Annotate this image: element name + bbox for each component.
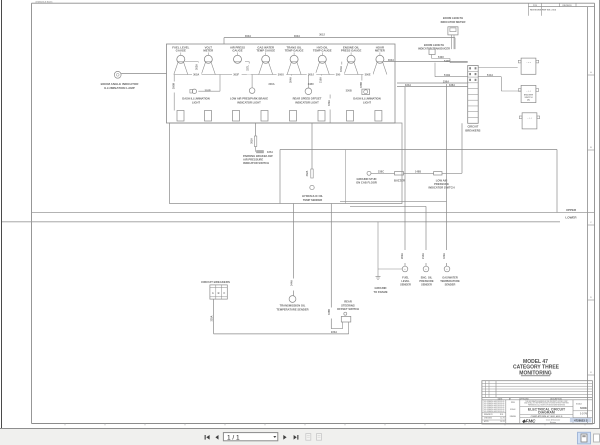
svg-text:CIRCUIT: CIRCUIT: [467, 125, 478, 129]
svg-text:REVISIONS PER WN. 2105: REVISIONS PER WN. 2105: [530, 10, 557, 12]
svg-text:ILLUMINATION LAMP: ILLUMINATION LAMP: [104, 86, 135, 90]
svg-text:LIGHT: LIGHT: [192, 100, 200, 104]
svg-text:ON CAB FLOOR: ON CAB FLOOR: [356, 181, 377, 185]
svg-text:R.M.: R.M.: [500, 414, 504, 416]
svg-text:223A: 223A: [331, 330, 337, 334]
svg-text:DASH ILLUMINATION: DASH ILLUMINATION: [182, 97, 209, 101]
svg-text:- + +: - + +: [526, 62, 531, 64]
svg-text:540C: 540C: [438, 55, 444, 59]
svg-text:302F: 302F: [233, 73, 239, 77]
svg-text:CIRCUIT BREAKERS: CIRCUIT BREAKERS: [201, 280, 230, 284]
svg-text:338A: 338A: [449, 83, 455, 87]
svg-text:INDICATOR METER: INDICATOR METER: [441, 20, 466, 24]
svg-text:INDICATOR LIGHT: INDICATOR LIGHT: [237, 100, 261, 104]
svg-text:GROUND: GROUND: [375, 286, 387, 290]
svg-text:BUZZER: BUZZER: [394, 179, 405, 183]
svg-text:540D: 540D: [444, 59, 450, 63]
svg-text:REAR SPEED OFFSET: REAR SPEED OFFSET: [293, 97, 322, 101]
svg-text:335B: 335B: [360, 82, 363, 88]
svg-text:301A: 301A: [251, 138, 254, 144]
svg-text:338B: 338B: [328, 309, 331, 315]
svg-text:INDICATOR SWITCH: INDICATOR SWITCH: [428, 186, 454, 190]
svg-text:SENDER: SENDER: [421, 283, 432, 287]
svg-text:209A: 209A: [401, 253, 404, 259]
svg-text:- + +: - + +: [527, 118, 532, 120]
svg-text:PARKING BRAKE/LOW: PARKING BRAKE/LOW: [243, 154, 273, 158]
svg-text:304A: 304A: [290, 77, 293, 83]
svg-text:STEERING: STEERING: [341, 303, 355, 307]
svg-text:SENDER: SENDER: [445, 283, 456, 287]
svg-text:SCALE: SCALE: [510, 408, 515, 411]
svg-text:316A: 316A: [319, 77, 322, 83]
svg-text:TRANSMISSION OIL: TRANSMISSION OIL: [280, 304, 306, 308]
svg-text:+: +: [425, 268, 427, 271]
svg-text:300X: 300X: [278, 73, 284, 77]
svg-text:B: B: [590, 147, 592, 149]
svg-text:INDICATOR SWITCH: INDICATOR SWITCH: [243, 161, 269, 165]
svg-text:PRESS GAUGE: PRESS GAUGE: [341, 49, 362, 53]
svg-text:REAR: REAR: [344, 300, 352, 304]
svg-text:169A: 169A: [443, 253, 446, 259]
svg-text:541A: 541A: [487, 73, 493, 77]
svg-text:LOW AIR: LOW AIR: [436, 179, 448, 183]
svg-text:ENG. OIL: ENG. OIL: [421, 275, 433, 279]
svg-text:1 / 1: 1 / 1: [227, 434, 240, 441]
svg-text:+: +: [446, 268, 448, 271]
svg-text:SENDER: SENDER: [400, 283, 411, 287]
svg-text:302J: 302J: [319, 32, 325, 36]
svg-text:339A: 339A: [328, 100, 331, 106]
svg-text:210A: 210A: [422, 253, 425, 259]
svg-text:338C: 338C: [308, 82, 314, 86]
svg-text:PCN: PCN: [533, 5, 538, 7]
svg-text:GAUGE: GAUGE: [232, 49, 242, 53]
svg-text:4728023-S ELEC: 4728023-S ELEC: [35, 0, 53, 3]
svg-text:HYDRAULIC OIL: HYDRAULIC OIL: [302, 194, 323, 198]
svg-text:302A: 302A: [245, 34, 251, 38]
svg-text:Crane & Excavator: Crane & Excavator: [546, 419, 561, 422]
svg-text:GAUGE: GAUGE: [176, 49, 186, 53]
svg-text:AIR PRESSURE: AIR PRESSURE: [243, 158, 263, 162]
svg-text:OFFSET SWITCH: OFFSET SWITCH: [337, 307, 359, 311]
svg-text:GAS/WATER: GAS/WATER: [442, 275, 458, 279]
svg-text:METER: METER: [203, 49, 213, 53]
svg-text:FUEL: FUEL: [402, 275, 409, 279]
svg-text:TEMP GAUGE: TEMP GAUGE: [313, 49, 332, 53]
svg-text:LOW AIR PRES/PARK BRAKE: LOW AIR PRES/PARK BRAKE: [230, 97, 268, 101]
svg-text:332A: 332A: [306, 170, 309, 176]
svg-text:TEMP GAUGE: TEMP GAUGE: [256, 49, 275, 53]
svg-text:300J: 300J: [308, 73, 314, 77]
svg-text:LIGHT: LIGHT: [363, 100, 371, 104]
svg-text:ITEM: ITEM: [511, 402, 515, 404]
svg-text:BOOM LENGTH: BOOM LENGTH: [443, 16, 463, 20]
svg-text:- + +: - + +: [526, 90, 531, 92]
svg-text:Division: Division: [550, 422, 556, 424]
svg-text:REVISION: REVISION: [562, 5, 572, 7]
svg-text:PRESSURE: PRESSURE: [419, 279, 434, 283]
svg-text:B: B: [218, 291, 220, 295]
svg-text:300A: 300A: [268, 82, 274, 86]
svg-text:1-2-76: 1-2-76: [500, 418, 505, 420]
svg-text:LEVEL: LEVEL: [401, 279, 410, 283]
svg-text:THIS DRAWING AND DESIGN IS: THIS DRAWING AND DESIGN IS: [483, 400, 504, 403]
svg-text:335A: 335A: [210, 315, 213, 321]
svg-text:APPR.: APPR.: [484, 420, 489, 423]
svg-text:302P: 302P: [205, 89, 211, 93]
svg-text:METER: METER: [375, 49, 385, 53]
svg-text:330B: 330B: [346, 89, 352, 93]
svg-text:1-8-76: 1-8-76: [500, 421, 505, 423]
svg-text:302A: 302A: [388, 58, 394, 62]
svg-text:SCALE: SCALE: [576, 402, 583, 405]
svg-text:1-2-76: 1-2-76: [580, 413, 588, 416]
svg-text:C: C: [223, 291, 225, 295]
svg-text:TEMPERATURE SENDER: TEMPERATURE SENDER: [276, 307, 308, 311]
svg-text:334A: 334A: [405, 83, 411, 87]
svg-text:148B: 148B: [415, 170, 421, 174]
svg-text:DRAWN BY: DRAWN BY: [484, 413, 494, 416]
svg-text:DESCRIPTION: DESCRIPTION: [550, 398, 562, 400]
svg-text:CHECKED: CHECKED: [484, 418, 493, 420]
svg-text:344A: 344A: [290, 280, 293, 286]
svg-text:302A: 302A: [195, 64, 198, 70]
svg-text:GROUND STUD: GROUND STUD: [356, 177, 376, 181]
svg-text:A: A: [590, 71, 592, 74]
svg-text:541B: 541B: [444, 73, 450, 77]
svg-text:TO FRAME: TO FRAME: [374, 290, 388, 294]
svg-text:327L: 327L: [246, 65, 249, 71]
svg-text:TEMP GAUGE: TEMP GAUGE: [285, 49, 304, 53]
svg-text:300E: 300E: [365, 73, 371, 77]
svg-text:LOWER: LOWER: [565, 216, 577, 220]
svg-text:302A: 302A: [294, 34, 300, 38]
svg-text:◆FMC: ◆FMC: [522, 419, 536, 424]
svg-text:E: E: [590, 372, 592, 374]
svg-text:C: C: [590, 222, 592, 224]
svg-text:4728023 S: 4728023 S: [574, 418, 588, 422]
svg-text:BOOM LENGTH: BOOM LENGTH: [424, 43, 444, 47]
svg-text:TEMPERATURE: TEMPERATURE: [440, 279, 460, 283]
svg-text:NONE: NONE: [580, 407, 587, 410]
svg-text:INDICATOR LIGHT: INDICATOR LIGHT: [295, 100, 319, 104]
svg-text:+: +: [404, 268, 406, 271]
svg-text:DRAWN: DRAWN: [510, 415, 517, 418]
svg-text:338C: 338C: [378, 170, 384, 174]
svg-text:336A: 336A: [443, 79, 449, 83]
svg-text:335A: 335A: [267, 150, 273, 154]
svg-text:APPROVED: APPROVED: [519, 397, 529, 400]
svg-text:D: D: [590, 297, 592, 299]
svg-text:300M: 300M: [173, 83, 176, 89]
svg-text:TEMP SENDER: TEMP SENDER: [303, 198, 322, 202]
svg-text:331A: 331A: [340, 66, 343, 72]
svg-text:A: A: [212, 291, 214, 295]
svg-text:BREAKERS: BREAKERS: [465, 128, 480, 132]
svg-text:UPPER: UPPER: [566, 208, 577, 212]
svg-text:DASH ILLUMINATION: DASH ILLUMINATION: [353, 97, 380, 101]
svg-text:(K): (K): [527, 99, 530, 101]
svg-text:DIAGRAM: DIAGRAM: [538, 411, 555, 415]
